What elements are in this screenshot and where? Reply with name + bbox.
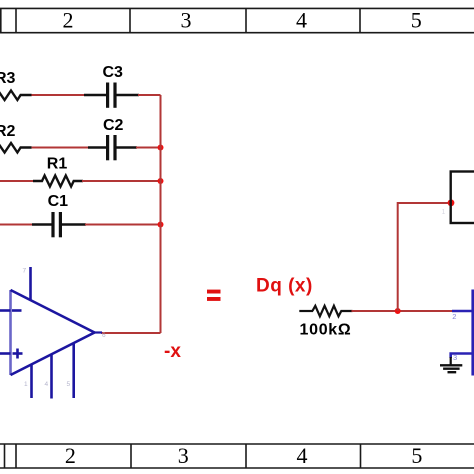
op-amp output stub <box>95 331 103 333</box>
svg-text:2: 2 <box>452 312 456 321</box>
svg-text:3: 3 <box>178 443 189 468</box>
capacitor C1 <box>53 212 60 237</box>
svg-text:C1: C1 <box>48 193 69 210</box>
junction dot at 100k node <box>395 308 401 314</box>
wire row4 black out of C1 <box>62 223 86 225</box>
svg-text:2: 2 <box>65 443 76 468</box>
wire row1 black out of C3 <box>117 94 140 96</box>
wire row2 black out of C2 <box>117 146 138 148</box>
svg-text:5: 5 <box>411 8 422 33</box>
op-amp plus sign <box>13 349 23 359</box>
wire blue pin3 <box>451 354 473 359</box>
wire row4 red left <box>0 224 33 226</box>
junction dot row2 <box>158 145 164 151</box>
wire row3 red to bus <box>82 180 161 182</box>
svg-text:4: 4 <box>297 443 308 468</box>
bottom ruler bar <box>0 444 474 468</box>
ground stem <box>450 357 452 365</box>
wire row3 red left <box>0 180 34 182</box>
svg-text:3: 3 <box>181 8 192 33</box>
svg-text:-x: -x <box>164 341 181 362</box>
wire red up to box <box>398 203 451 311</box>
wire inverting input stub <box>0 309 11 312</box>
wire row1 black into C3 <box>84 94 106 96</box>
svg-text:5: 5 <box>67 381 71 388</box>
svg-text:C3: C3 <box>103 64 124 81</box>
capacitor C3 <box>108 83 115 108</box>
svg-text:6: 6 <box>102 332 106 339</box>
junction dot row4 <box>158 222 164 228</box>
op-amp minus sign <box>12 309 22 312</box>
resistor R1 <box>33 176 83 187</box>
svg-text:3: 3 <box>453 353 457 362</box>
junction dot row3 <box>158 178 164 184</box>
wire row1 red left <box>32 94 86 96</box>
svg-text:4: 4 <box>296 8 307 33</box>
wire row2 red left <box>32 147 90 149</box>
svg-text:7: 7 <box>23 268 27 275</box>
wire red after 100k <box>352 310 454 312</box>
svg-text:C2: C2 <box>103 117 124 134</box>
svg-text:2: 2 <box>63 8 74 33</box>
wire non-inverting input stub <box>0 352 11 355</box>
svg-text:R2: R2 <box>0 123 16 140</box>
svg-text:R3: R3 <box>0 70 16 87</box>
resistor 100k lead left <box>299 310 313 312</box>
svg-text:R1: R1 <box>47 156 68 173</box>
wire row2 black into C2 <box>88 146 106 148</box>
resistor R3 (cut off at left edge) <box>0 91 32 101</box>
svg-text:100kΩ: 100kΩ <box>300 321 352 338</box>
resistor R2 (cut off at left edge) <box>0 143 32 153</box>
svg-text:1: 1 <box>442 209 446 216</box>
box component (cut off at right edge) <box>451 172 474 224</box>
capacitor C2 <box>108 135 115 160</box>
ground <box>440 365 462 372</box>
svg-text:1: 1 <box>24 381 28 388</box>
equals sign <box>207 290 221 301</box>
wire red op-amp output <box>101 332 161 334</box>
op-amp bottom pin 4 <box>50 355 53 399</box>
junction dot at box <box>448 199 455 206</box>
op-amp bottom pin 1 <box>30 365 33 399</box>
wire row2 red to bus <box>136 147 161 149</box>
svg-text:4: 4 <box>45 381 49 388</box>
wire row1 red to bus corner <box>138 94 161 96</box>
wire blue to op-amp pin2 <box>452 310 474 313</box>
op-amp U1 triangle <box>11 290 95 375</box>
op-amp U2 left edge (cut off at right edge) <box>471 290 474 376</box>
svg-text:5: 5 <box>411 443 422 468</box>
wire row4 black into C1 <box>32 223 52 225</box>
resistor 100k zigzag <box>312 306 352 317</box>
op-amp top supply pin <box>29 267 32 301</box>
svg-text:Dq (x): Dq (x) <box>256 276 313 297</box>
op-amp bottom pin 5 <box>72 344 75 399</box>
top ruler bar <box>0 8 474 32</box>
wire row4 red to bus <box>85 224 161 226</box>
wire red vertical bus <box>160 95 162 333</box>
